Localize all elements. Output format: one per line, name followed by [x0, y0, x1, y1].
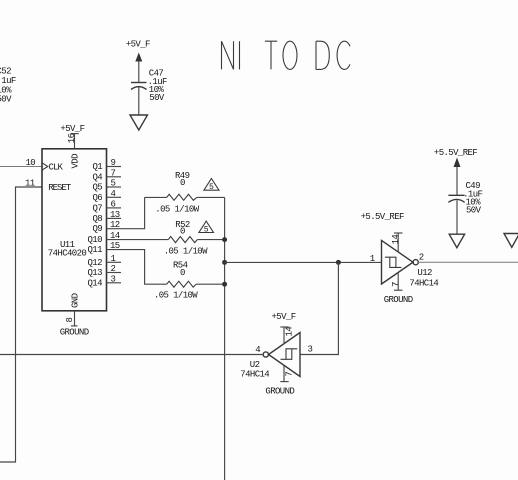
- ground (C47): [130, 115, 148, 130]
- svg-text:Q14: Q14: [88, 278, 103, 288]
- svg-text:+5V_F: +5V_F: [126, 39, 150, 49]
- resistor R49: [145, 171, 225, 214]
- svg-text:Q6: Q6: [93, 193, 103, 203]
- svg-text:1: 1: [111, 254, 116, 264]
- capacitor C49: [448, 181, 482, 215]
- svg-text:.05 1/10W: .05 1/10W: [164, 247, 208, 257]
- svg-text:VDD: VDD: [71, 154, 81, 169]
- svg-text:74HC14: 74HC14: [240, 369, 269, 379]
- svg-text:14: 14: [110, 231, 120, 241]
- svg-text:13: 13: [110, 210, 120, 220]
- svg-text:Q4: Q4: [93, 172, 103, 182]
- svg-text:5: 5: [111, 179, 116, 189]
- svg-text:7: 7: [284, 372, 294, 377]
- svg-text:Q13: Q13: [88, 268, 103, 278]
- U11 GND pin 8: [65, 311, 78, 326]
- U11 pin 3 (Q14): [107, 274, 122, 284]
- svg-text:+5.5V_REF: +5.5V_REF: [361, 212, 404, 222]
- svg-text:+5V_F: +5V_F: [272, 312, 296, 322]
- U11 VDD pin 16: [67, 133, 79, 148]
- wire C47 top lead: [138, 61, 140, 82]
- svg-text:C52: C52: [0, 66, 11, 76]
- U11 pin 14 (Q10) wire to R52: [107, 231, 169, 241]
- svg-text:+5.5V_REF: +5.5V_REF: [434, 148, 477, 158]
- power +5.5V_REF (U12) pin 14: [361, 212, 404, 252]
- svg-text:11: 11: [25, 179, 35, 189]
- svg-text:2: 2: [419, 252, 424, 262]
- svg-text:+5V_F: +5V_F: [60, 124, 84, 134]
- junction R54/bus: [222, 282, 227, 287]
- svg-text:Q8: Q8: [93, 214, 103, 224]
- svg-text:0: 0: [180, 268, 185, 278]
- svg-text:12: 12: [110, 220, 120, 230]
- U11 pin 15 (Q11) wire to R54: [107, 241, 167, 284]
- wire C49 top lead: [456, 167, 458, 196]
- wire C47 bottom lead: [138, 88, 140, 116]
- svg-text:3: 3: [111, 274, 116, 284]
- svg-text:GROUND: GROUND: [60, 327, 89, 337]
- note triangle 5 (R52): [199, 221, 214, 234]
- U11 pin 5 (Q5): [107, 179, 122, 189]
- ground (U12) pin 7: [384, 273, 413, 305]
- wire common bus node: [224, 197, 226, 480]
- svg-text:10: 10: [26, 158, 36, 168]
- svg-text:6: 6: [111, 199, 116, 209]
- svg-text:7: 7: [111, 168, 116, 178]
- svg-text:0: 0: [180, 178, 185, 188]
- svg-text:Q7: Q7: [93, 203, 103, 213]
- wire U12 output net: [418, 261, 518, 263]
- U11 pin 4 (Q6): [107, 189, 122, 199]
- inverter U12 74HC14: [382, 240, 439, 288]
- svg-text:CLK: CLK: [49, 163, 64, 173]
- svg-text:GROUND: GROUND: [265, 386, 294, 396]
- svg-text:4: 4: [255, 345, 260, 355]
- svg-text:74HC14: 74HC14: [409, 278, 438, 288]
- svg-text:16: 16: [67, 133, 77, 143]
- svg-text:50V: 50V: [0, 94, 12, 104]
- svg-text:50V: 50V: [466, 206, 482, 216]
- svg-text:3: 3: [308, 345, 313, 355]
- power +5V_F (U2) pin 14: [272, 312, 296, 344]
- svg-text:4: 4: [111, 189, 116, 199]
- svg-text:RESET: RESET: [48, 183, 72, 193]
- junction U2 branch: [336, 260, 341, 265]
- ground (right edge, partial): [504, 234, 518, 248]
- note triangle 5 (R49): [204, 179, 219, 193]
- svg-text:0: 0: [180, 227, 185, 237]
- svg-text:2: 2: [111, 264, 116, 274]
- svg-text:GND: GND: [71, 293, 81, 308]
- wire bus to U12 input: [225, 261, 382, 263]
- svg-text:Q11: Q11: [88, 245, 103, 255]
- svg-text:15: 15: [110, 241, 120, 251]
- U11 pin 1 (Q12): [107, 254, 122, 264]
- svg-text:9: 9: [111, 158, 116, 168]
- svg-text:Q10: Q10: [88, 235, 103, 245]
- junction bus/output: [222, 260, 227, 265]
- svg-text:Q12: Q12: [88, 258, 103, 268]
- svg-text:Q9: Q9: [93, 224, 103, 234]
- ground (C49): [449, 234, 464, 248]
- wire CLK input net: [0, 166, 42, 168]
- svg-text:74HC4020: 74HC4020: [48, 249, 87, 259]
- svg-text:50V: 50V: [149, 93, 165, 103]
- resistor R52: [164, 220, 225, 257]
- svg-text:.1uF: .1uF: [0, 76, 16, 86]
- svg-text:Q5: Q5: [93, 183, 103, 193]
- inverter U2 74HC14 (mirrored): [240, 333, 300, 380]
- IC U11 74HC4020 body: [42, 149, 107, 311]
- wire U2 input branch: [300, 262, 338, 354]
- svg-text:1: 1: [370, 254, 375, 264]
- power +5.5V_REF (C49): [434, 148, 477, 167]
- svg-text:14: 14: [284, 327, 294, 337]
- U11 pin 2 (Q13): [107, 264, 122, 274]
- U11 CLK pin wedge: [42, 163, 48, 170]
- capacitor C47: [131, 69, 167, 103]
- wire C49 bottom lead: [456, 200, 458, 234]
- svg-text:U12: U12: [417, 268, 432, 278]
- wire RESET input net: [0, 187, 42, 462]
- svg-text:14: 14: [391, 235, 401, 245]
- title NI TO DC: [222, 41, 351, 69]
- U11 pin 7 (Q4): [107, 168, 122, 178]
- U11 pin 12 (Q9) wire to R49: [107, 197, 145, 230]
- resistor R54: [154, 261, 225, 301]
- ground (U2) pin 7: [265, 366, 294, 397]
- svg-text:8: 8: [65, 318, 75, 323]
- svg-text:Q1: Q1: [93, 162, 103, 172]
- junction R52/bus: [222, 237, 227, 242]
- power +5V_F (C47): [126, 39, 150, 61]
- capacitor C52 (partial, left edge) value labels: [0, 66, 16, 104]
- svg-text:.05 1/10W: .05 1/10W: [155, 205, 199, 215]
- svg-text:7: 7: [391, 282, 401, 287]
- U11 pin 6 (Q7): [107, 199, 122, 209]
- U11 pin 9 (Q1): [107, 158, 122, 168]
- svg-text:GROUND: GROUND: [384, 295, 413, 305]
- svg-text:.05 1/10W: .05 1/10W: [154, 290, 198, 300]
- U11 pin 13 (Q8): [107, 210, 122, 220]
- wire U2 output net: [0, 354, 263, 356]
